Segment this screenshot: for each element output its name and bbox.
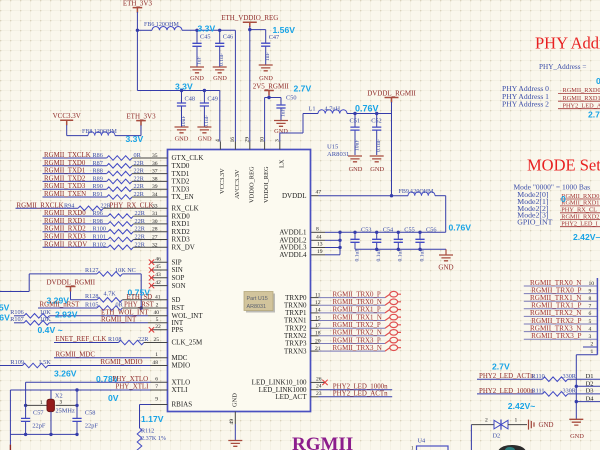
resistor R91 22R row RGMII_TXEN pin 34 (43, 191, 168, 199)
svg-text:FB9 120OHM: FB9 120OHM (399, 189, 435, 195)
wire RGMII_TRX2_P to connector pin 5 (524, 317, 598, 325)
svg-text:2V5_RGMII: 2V5_RGMII (253, 83, 290, 91)
svg-text:1.17V: 1.17V (141, 414, 164, 424)
voltage annotation 2.7V LED (492, 362, 510, 372)
svg-text:0V: 0V (108, 393, 119, 403)
svg-text:2: 2 (591, 342, 594, 348)
decorative part photo ellipse (498, 445, 526, 450)
svg-text:4.7uH: 4.7uH (325, 105, 341, 112)
svg-text:R108: R108 (108, 336, 121, 343)
resistor R90 22R row RGMII_TXD3 pin 39 (43, 183, 168, 191)
svg-text:10K: 10K (40, 309, 51, 316)
svg-text:DVDDL_RGMII: DVDDL_RGMII (47, 279, 96, 287)
ground under C52 (370, 156, 385, 173)
svg-text:R111: R111 (532, 388, 545, 395)
wire pin47 DVDDL row (311, 195, 409, 197)
svg-text:30: 30 (152, 219, 158, 225)
svg-text:RGMII_TRX1_P: RGMII_TRX1_P (333, 307, 381, 314)
svg-text:1uF: 1uF (281, 108, 287, 117)
svg-text:10: 10 (589, 281, 595, 287)
bottom pin 49 stub (229, 412, 235, 425)
svg-text:330R: 330R (563, 388, 577, 395)
capacitor C58 22pF (72, 405, 98, 434)
svg-text:PPS: PPS (172, 326, 184, 334)
wire 3.3V analog rail y30 (182, 29, 235, 32)
row PHY Address 2 (502, 100, 600, 110)
resistor R108 22R row ENET_REF_CLK pin 25 (54, 336, 168, 345)
net label PHY2_LED_ACTn pin 23 (311, 391, 393, 398)
pin number 47 (316, 190, 322, 196)
svg-text:RGMII_TRX0_N: RGMII_TRX0_N (333, 299, 382, 306)
svg-text:27: 27 (152, 235, 158, 241)
resistor R101 22R row RGMII_RXD3 pin 27 (43, 234, 168, 242)
svg-text:RGMII_RXD3: RGMII_RXD3 (44, 234, 86, 241)
wire RGMII_TRX2_N to connector pin 6 (524, 309, 598, 317)
svg-text:8: 8 (316, 226, 319, 232)
svg-text:7: 7 (589, 304, 592, 310)
svg-text:PHY2_LED_1000n: PHY2_LED_1000n (333, 383, 388, 390)
svg-text:42: 42 (155, 280, 161, 286)
svg-text:C56: C56 (426, 226, 437, 233)
svg-text:FB6 120OHM: FB6 120OHM (144, 22, 180, 28)
capacitor C54 0.1uF (372, 226, 394, 261)
ground under C51 (348, 156, 363, 173)
svg-text:TXD1: TXD1 (172, 170, 190, 178)
svg-text:AVDDL4: AVDDL4 (279, 251, 307, 259)
wire RGMII_TRX0_P pin 11 (311, 291, 402, 298)
svg-text:C53: C53 (361, 226, 372, 233)
svg-text:C45: C45 (200, 34, 211, 41)
svg-text:16: 16 (230, 137, 236, 143)
resistor R111 330R row PHY2_LED_1000n D3 (477, 388, 600, 396)
svg-text:C49: C49 (207, 96, 218, 103)
wire 2V5 node (265, 96, 281, 142)
svg-text:RGMII_RXD0: RGMII_RXD0 (44, 210, 86, 217)
svg-text:GND: GND (370, 166, 384, 173)
svg-text:10K NC: 10K NC (115, 267, 136, 274)
voltage annotation 3.29V (47, 295, 70, 305)
resistor R106 10K row ETH_WOL_INT pin 40 (10, 309, 167, 318)
voltage annotation 3.3V (lower rail) (175, 82, 193, 92)
svg-text:8: 8 (589, 296, 592, 302)
ground of cap rail (438, 249, 453, 271)
svg-text:AR8031: AR8031 (327, 151, 349, 158)
svg-text:VDDIO_REG: VDDIO_REG (248, 166, 255, 203)
connector body edge (596, 278, 598, 355)
svg-text:PHY_RX_CLK: PHY_RX_CLK (110, 202, 154, 209)
svg-text:40: 40 (154, 310, 160, 316)
wire AVDDL vertical bus (338, 231, 341, 255)
svg-text:ETH_3V3: ETH_3V3 (126, 112, 156, 120)
svg-text:Part U15: Part U15 (247, 296, 268, 302)
row Mode2[0] (517, 190, 600, 200)
svg-text:AVDDL1: AVDDL1 (279, 229, 307, 237)
ground under C49 (197, 116, 212, 143)
svg-text:3.3V: 3.3V (175, 82, 193, 92)
svg-text:TRXN3: TRXN3 (284, 347, 307, 355)
svg-text:PHY_Address =: PHY_Address = (539, 63, 586, 71)
wire ETH_3V3 down to rails (136, 12, 139, 91)
svg-text:R105: R105 (85, 301, 98, 308)
svg-text:SIP: SIP (172, 258, 182, 266)
svg-text:48: 48 (152, 360, 158, 366)
wire RBIAS row pin 9 (140, 397, 168, 405)
svg-text:24: 24 (316, 384, 322, 390)
power stub below rail (9, 434, 11, 450)
svg-text:R91: R91 (93, 191, 103, 198)
svg-text:22pF: 22pF (85, 422, 98, 429)
capacitor C45 1uF (192, 30, 210, 65)
svg-text:22R: 22R (135, 226, 146, 233)
voltage annotation 1.17V (141, 414, 164, 424)
svg-text:GND: GND (539, 422, 554, 429)
svg-text:GND: GND (274, 128, 288, 135)
ground under C48 (175, 116, 189, 143)
svg-text:PHY2_LED_ACTn: PHY2_LED_ACTn (333, 391, 388, 398)
wire DVDDL vertical to FB9 junction (390, 102, 393, 197)
svg-text:34: 34 (152, 192, 158, 198)
svg-text:RGMII_nRST: RGMII_nRST (40, 302, 81, 309)
svg-text:22: 22 (155, 324, 161, 330)
svg-text:26: 26 (316, 376, 322, 382)
no-connect pin 26 (311, 376, 328, 385)
svg-text:X2: X2 (55, 393, 63, 400)
svg-text:5: 5 (589, 319, 592, 325)
resistor R88 22R row RGMII_TXD1 pin 37 (43, 168, 168, 176)
svg-text:XTLI: XTLI (172, 386, 189, 394)
resistor R87 22R row RGMII_TXD0 pin 36 (43, 160, 168, 168)
wire FB9 to AVDDL rail (435, 196, 446, 233)
wire FB8 to ETH_3V3 (115, 125, 141, 135)
svg-text:GND: GND (232, 393, 239, 407)
svg-text:DVDDL: DVDDL (282, 192, 307, 200)
svg-text:PHY_XTLO: PHY_XTLO (113, 376, 149, 383)
svg-text:1: 1 (40, 400, 43, 406)
ground under C50 (274, 119, 288, 135)
svg-text:RGMII_RXD2: RGMII_RXD2 (44, 226, 86, 233)
svg-text:L1: L1 (309, 106, 316, 113)
svg-text:0.1uF: 0.1uF (376, 139, 382, 152)
svg-text:RGMII_TRX3_N: RGMII_TRX3_N (333, 345, 382, 352)
capacitor C52 0.1uF (371, 114, 382, 156)
ground under pin 49 (228, 424, 242, 446)
power port ETH_3V3 top (123, 0, 153, 13)
row PHY Address 0 (502, 84, 600, 94)
voltage annotation 2.7V (2V5 rail) (294, 84, 312, 94)
svg-text:10uF: 10uF (354, 139, 360, 151)
svg-text:15: 15 (315, 315, 321, 321)
pin name GND rotated bottom (232, 393, 239, 407)
power port DVDDL_RGMII (367, 89, 416, 102)
svg-text:RGMII_TXEN: RGMII_TXEN (44, 191, 86, 198)
voltage annotation 0.75V (128, 288, 151, 298)
svg-text:2.7V: 2.7V (294, 84, 312, 94)
svg-text:TXD3: TXD3 (172, 185, 190, 193)
no-connect pin 46 (149, 256, 168, 265)
svg-text:RGMII_TRX2_N: RGMII_TRX2_N (333, 330, 382, 337)
row Mode2[3] (517, 211, 600, 221)
svg-text:RGMII_TRX0_P: RGMII_TRX0_P (333, 291, 381, 298)
row Mode2[1] (517, 197, 600, 207)
svg-text:RXD0: RXD0 (172, 212, 191, 220)
resistor R128 4.7K pullup SD (71, 290, 168, 302)
row PHY Address 1 (502, 92, 600, 102)
svg-text:3: 3 (275, 139, 281, 142)
top pin names rotated (219, 159, 285, 203)
svg-text:0.76V: 0.76V (449, 223, 472, 233)
svg-text:GND: GND (175, 136, 189, 143)
svg-text:R98: R98 (93, 218, 103, 225)
svg-text:GTX_CLK: GTX_CLK (172, 154, 204, 162)
crystal ground pad stub (50, 412, 52, 435)
svg-text:2.42V–: 2.42V– (573, 232, 600, 242)
row GPIO_INT (517, 218, 600, 228)
resistor R112 2.37K 1% vertical (137, 405, 166, 450)
svg-text:RX_DV: RX_DV (172, 244, 195, 252)
svg-text:VDDOI_REG: VDDOI_REG (263, 166, 270, 203)
svg-text:TXD0: TXD0 (172, 162, 190, 170)
svg-text:10: 10 (259, 137, 265, 143)
IC left pin names (172, 154, 204, 409)
voltage annotation 2.93V (55, 310, 78, 320)
IC right pin names (252, 192, 308, 401)
svg-text:RGMII_TXCLK: RGMII_TXCLK (44, 152, 91, 159)
svg-text:RGMII_MDIO: RGMII_MDIO (101, 359, 143, 366)
svg-text:0R: 0R (134, 152, 142, 159)
svg-text:CLK_25M: CLK_25M (172, 339, 204, 347)
capacitor C46 0.1uF (215, 30, 233, 66)
svg-text:1: 1 (591, 349, 594, 355)
capacitor C50 1uF (276, 95, 296, 120)
voltage annotation 3.3V (top rail) (198, 24, 216, 34)
svg-text:22R: 22R (135, 241, 146, 248)
no-connect pin 22 PPS (149, 324, 168, 332)
ferrite bead FB6 120OHM (137, 22, 182, 30)
svg-text:0.76V: 0.76V (355, 104, 379, 114)
svg-text:C52: C52 (371, 118, 382, 125)
svg-text:ETH_3V3: ETH_3V3 (123, 0, 153, 7)
resistor R127 10K NC (0, 267, 143, 310)
partial cyan 0 mode (561, 194, 566, 204)
svg-text:2: 2 (156, 302, 159, 308)
svg-text:4: 4 (589, 326, 592, 332)
ground below LED rows (569, 419, 584, 440)
svg-text:1.5K: 1.5K (39, 359, 52, 366)
svg-text:4.7K: 4.7K (104, 290, 117, 297)
svg-text:21: 21 (315, 346, 321, 352)
svg-text:2.93V: 2.93V (55, 310, 78, 320)
power port 2V5_RGMII (253, 83, 290, 96)
wire RGMII_TRX0_N pin 12 (311, 299, 402, 306)
svg-text:AR8031: AR8031 (247, 304, 266, 310)
svg-text:22R: 22R (134, 160, 145, 167)
partial annotation 5V left edge (0, 303, 10, 313)
svg-text:R100: R100 (93, 226, 106, 233)
svg-text:GND: GND (349, 166, 363, 173)
wire crystal bottom rail (10, 433, 78, 436)
svg-text:RGMII_RXDV: RGMII_RXDV (44, 241, 87, 248)
capacitor C49 0.1uF (200, 91, 218, 129)
svg-text:RX_CLK: RX_CLK (172, 205, 199, 213)
svg-text:RBIAS: RBIAS (172, 401, 193, 409)
no-connect pin 42 (149, 280, 168, 289)
svg-text:23: 23 (316, 391, 322, 397)
svg-text:R106: R106 (10, 309, 23, 316)
svg-text:PHY2_LED_ACTn: PHY2_LED_ACTn (479, 373, 534, 380)
svg-text:5V: 5V (0, 303, 10, 313)
svg-text:43: 43 (155, 272, 161, 278)
svg-text:22R: 22R (135, 234, 146, 241)
svg-text:R110: R110 (532, 373, 545, 380)
power port VCC3.3V (53, 112, 81, 125)
svg-text:SOP: SOP (172, 274, 185, 282)
svg-text:6: 6 (155, 376, 158, 382)
svg-text:SON: SON (172, 282, 186, 290)
wire RGMII_TRX2_P pin 17 (311, 322, 402, 329)
svg-text:RXD3: RXD3 (172, 236, 191, 244)
wire LX pin3 to L1 (280, 114, 318, 142)
wire to C47 (250, 30, 266, 41)
svg-text:TX_EN: TX_EN (172, 193, 194, 201)
svg-text:R101: R101 (93, 234, 106, 241)
subtext PHY_Address = (539, 63, 586, 71)
svg-text:R89: R89 (93, 175, 103, 182)
wire XTLI down left (9, 390, 11, 434)
resistor R89 22R row RGMII_TXD2 pin 38 (43, 175, 168, 183)
svg-text:0: 0 (561, 194, 566, 204)
svg-text:R96: R96 (93, 210, 103, 217)
svg-text:RGMII_RXD1: RGMII_RXD1 (44, 218, 86, 225)
ground under C46 (213, 55, 228, 82)
heading RGMII (292, 434, 353, 450)
svg-text:49: 49 (229, 419, 235, 425)
svg-text:R88: R88 (93, 168, 103, 175)
svg-text:RGMII_RXCLK: RGMII_RXCLK (17, 202, 64, 209)
diode D2 (471, 418, 527, 450)
svg-text:ETH_WOL_INT: ETH_WOL_INT (101, 309, 149, 316)
svg-text:GND: GND (259, 75, 273, 82)
voltage annotation 0V (108, 393, 119, 403)
svg-text:25: 25 (154, 337, 160, 343)
svg-text:19: 19 (317, 249, 323, 255)
svg-text:38: 38 (152, 176, 158, 182)
power port ETH_3V3 (mid) (126, 112, 156, 125)
svg-text:D2: D2 (493, 433, 501, 440)
wire crystal pad4 link (50, 390, 52, 399)
svg-text:47: 47 (316, 190, 322, 196)
svg-text:RGMII_TXD2: RGMII_TXD2 (44, 175, 86, 182)
svg-text:2.42V~: 2.42V~ (508, 401, 535, 411)
top pin numbers (215, 137, 280, 143)
voltage annotation 3.26V (54, 369, 77, 379)
partial cyan 0 top (596, 76, 600, 86)
svg-text:2: 2 (485, 418, 488, 424)
svg-text:R107: R107 (10, 316, 23, 323)
svg-text:R87: R87 (93, 160, 103, 167)
svg-text:MODE Sett: MODE Sett (527, 156, 600, 175)
svg-text:10K: 10K (40, 316, 51, 323)
svg-text:29: 29 (245, 137, 251, 143)
wire RGMII_TRX3_N pin 21 (311, 345, 402, 352)
svg-text:RGMII_MDC: RGMII_MDC (56, 351, 96, 358)
svg-text:PHY2_LED_1000n: PHY2_LED_1000n (479, 388, 534, 395)
svg-text:33: 33 (152, 203, 158, 209)
svg-text:3.26V: 3.26V (54, 369, 77, 379)
svg-text:0.4V ~: 0.4V ~ (38, 325, 63, 335)
heading MODE Setting (527, 156, 600, 175)
resistor R86 0R row RGMII_TXCLK pin 35 (43, 152, 168, 160)
voltage annotation 3.3V (FB8) (126, 134, 144, 144)
svg-text:3.3V: 3.3V (126, 134, 144, 144)
svg-text:22pF: 22pF (32, 422, 45, 429)
partial annotation 6V left edge (0, 313, 10, 323)
svg-text:RGMII_TXD3: RGMII_TXD3 (44, 183, 86, 190)
wire RGMII_TRX3_P to connector pin 3 (524, 332, 598, 340)
svg-text:GND: GND (438, 264, 453, 272)
capacitor C56 0.1uF (415, 226, 436, 261)
capacitor C48 10uF (177, 91, 195, 128)
svg-text:LX: LX (278, 159, 285, 168)
wire crystal right to XTLI row (75, 388, 78, 405)
svg-text:SD: SD (172, 296, 181, 304)
svg-text:3: 3 (60, 400, 63, 406)
svg-text:R86: R86 (93, 152, 103, 159)
resistor R94 22R row RGMII_RXCLK PHY_RX_CLK pin 33 (16, 202, 168, 210)
svg-text:SIN: SIN (172, 266, 183, 274)
resistor R100 22R row RGMII_RXD2 pin 28 (43, 226, 168, 234)
svg-text:LED_ACT: LED_ACT (275, 393, 307, 401)
ferrite bead FB8 120OHM (82, 129, 118, 136)
wire ETH_VDDIO_REG down to pin 29 (248, 26, 251, 142)
svg-text:PHY_XTLI: PHY_XTLI (116, 384, 150, 391)
svg-text:1: 1 (155, 352, 158, 358)
wire RGMII_TRX1_N pin 15 (311, 314, 402, 321)
svg-text:RXD2: RXD2 (172, 228, 191, 236)
svg-text:3: 3 (589, 334, 592, 340)
power port DVDDL_RGMII (left) (47, 279, 96, 292)
wire rail down to pin 4 VCC3.3V (219, 91, 221, 142)
svg-text:22R: 22R (134, 168, 145, 175)
svg-text:C47: C47 (269, 34, 280, 41)
svg-text:GND: GND (198, 136, 212, 143)
wire AVDDL cap ground rail (355, 248, 446, 251)
crystal X2 25MHz (26, 393, 79, 415)
net label PHY_XTLI row pin 7 (10, 384, 167, 391)
capacitor C51 10uF (350, 114, 361, 156)
svg-text:6V: 6V (0, 313, 10, 323)
wire RGMII_TRX0_N to connector pin 10 (524, 279, 598, 287)
svg-text:RGMII_TRX3_P: RGMII_TRX3_P (333, 337, 381, 344)
svg-text:C58: C58 (85, 410, 96, 417)
svg-text:2.7: 2.7 (588, 110, 600, 120)
svg-text:12: 12 (315, 300, 321, 306)
voltage annotation 0.76V (DVDDL) (355, 104, 379, 114)
net label RGMII_MDC row pin 1 (54, 351, 168, 358)
capacitor C53 0.1uF (350, 226, 371, 261)
svg-text:C57: C57 (33, 410, 44, 417)
ground under C47 (259, 62, 274, 82)
svg-text:1: 1 (515, 418, 518, 424)
capacitor C57 22pF (21, 405, 46, 434)
svg-text:22R: 22R (134, 191, 145, 198)
svg-text:44: 44 (316, 234, 322, 240)
connector pin 1 (576, 349, 597, 355)
svg-text:R94: R94 (64, 202, 74, 209)
svg-text:GND: GND (570, 433, 584, 440)
svg-text:GND: GND (213, 75, 227, 82)
svg-text:20: 20 (315, 338, 321, 344)
svg-text:6: 6 (589, 311, 592, 317)
